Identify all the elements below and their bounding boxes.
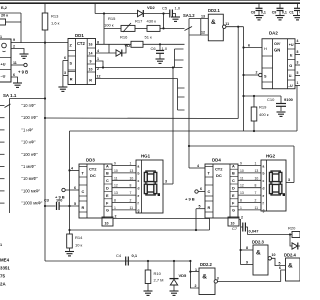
svg-text:7: 7 [255,191,257,195]
wire DD1 pin3 [63,75,68,77]
wire DD1 pin4 to VD1 [96,52,117,54]
svg-text:9: 9 [246,261,248,265]
svg-text:C4: C4 [116,253,122,258]
junction DD4 R branch [195,229,197,231]
junction x243.5/y96 [242,95,244,97]
wire DA1 pin2 to ground [11,49,24,55]
HG1 decimal point [158,193,160,196]
svg-text:D: D [232,187,235,191]
ground at C10 [277,112,286,116]
wire +9V supply rail [0,2,300,4]
svg-text:"1 нФ": "1 нФ" [22,127,34,132]
wire DD1 pin1 to pin2 net [96,61,104,68]
svg-text:+U: +U [289,43,294,47]
border frame top edge [0,0,300,2]
svg-text:C: C [232,179,235,183]
wire corner x209.5 [209,219,211,231]
wire R15-R17 [135,27,147,29]
wire bus y131 [70,130,298,132]
svg-text:–U: –U [1,75,6,79]
junction R19 bottom [253,130,255,132]
svg-text:C10: C10 [267,97,275,102]
svg-text:C8: C8 [251,10,256,14]
junction DD2.2 input branch [189,260,191,262]
capacitor C9 0,1 [277,8,284,10]
wire tie DD2.1 pins 13-12 [200,19,202,36]
wire DD1 pin8 to R16 [96,43,132,45]
wire SA1.1 common to x45 [10,98,46,100]
svg-text:7: 7 [130,191,132,195]
wire C10 bottom [280,106,282,111]
display HG1 box [136,160,163,213]
svg-text:9: 9 [240,162,242,166]
wire DD4 R input [196,208,205,210]
svg-text:9: 9 [90,59,92,63]
wire DD4 T input [189,167,205,169]
wire DD1 pins 6,3 to ground [62,61,64,88]
svg-text:R15: R15 [108,16,116,21]
wire from 20k resistor [6,21,22,23]
capacitor C7 [243,223,246,232]
svg-text:2: 2 [13,45,15,49]
svg-text:13: 13 [240,191,244,195]
wire DA2 pin 5 [295,75,300,77]
diode VD2 [138,10,144,17]
svg-text:C9: C9 [272,10,277,14]
junction R17 node [162,27,164,29]
svg-text:C6: C6 [151,46,157,51]
wire DD2.3 pin8 [241,249,253,251]
svg-text:4: 4 [71,166,73,170]
svg-text:DC: DC [216,173,222,178]
diode VD1 [116,50,122,57]
ground at VD5 [170,291,179,295]
wire DA2 pin 8 [295,54,300,56]
svg-text:4: 4 [197,164,199,168]
ground at R10 [144,291,153,295]
svg-text:&: & [288,263,293,270]
wire DD4 C input [198,191,205,193]
wire x69 bus-to-R14 [69,131,71,234]
svg-text:8: 8 [255,184,257,188]
svg-text:"10 нФ": "10 нФ" [22,140,37,145]
ground at R14 [65,252,74,256]
svg-text:5: 5 [279,262,281,266]
svg-text:1,0: 1,0 [175,6,181,11]
wire DD2.3 out to DD2.4 pin5 [272,258,286,265]
capacitor C1 0,1 [294,8,301,10]
svg-text:R: R [70,78,73,82]
wire C3 to DD3 R input [59,205,79,207]
wire cap C9 to ground [279,11,281,16]
wire x173 from DD1 pin2 net to HG1 pin3 [172,68,174,185]
wire DA2 pin 4 [295,43,300,45]
resistor R14 [67,234,73,248]
svg-text:DD1: DD1 [75,33,84,38]
svg-text:1: 1 [97,57,99,61]
DD3 carry cell [102,217,113,226]
switch SA1.1 contact 2 [0,117,5,119]
junction C6 tap [159,43,161,45]
svg-text:"10 пФ": "10 пФ" [22,103,36,108]
wire rail to cap C9 [279,3,281,8]
DD1 output cells 16/14/9/10/R [87,47,95,49]
svg-text:g: g [263,209,265,213]
inverting bubble DD2.1 [223,25,226,28]
wire C5 node vertical [163,14,165,29]
ground at C9 [276,16,285,20]
svg-text:R19: R19 [259,105,267,110]
ground at C6 [156,59,165,63]
op-amp DA1 (generator IC, cut off at left edge) [0,39,11,82]
switch SA1.1 contact 1 [0,105,5,107]
switch SA1.1 contact 8 [0,190,5,192]
wire to DD2.2 pin2 [190,261,199,288]
svg-text:"100 мкФ": "100 мкФ" [22,188,41,193]
terminal +9V circle DD4 [195,190,198,193]
wire measurement bus y261 [45,260,190,262]
HG1 seven-segment digit [144,171,157,195]
wire R14 to ground [69,248,71,252]
switch SA1.1 contact 9 [0,202,5,204]
IC DD1 box [68,39,96,85]
svg-text:11: 11 [130,206,134,210]
wire rail drop x95 [94,3,96,13]
svg-text:6: 6 [248,44,250,48]
svg-text:+U: +U [1,63,6,67]
svg-text:10: 10 [240,169,244,173]
svg-text:d: d [138,187,140,191]
wire rail to cap C1 [297,3,299,8]
svg-text:1: 1 [0,35,2,39]
wire main vertical bus x45 [44,3,46,261]
resistor R16 [131,41,143,47]
wire DD2.1 output y26.7 [226,26,244,28]
svg-text:"100 нФ": "100 нФ" [22,152,39,157]
svg-text:R: R [82,206,85,210]
switch SA1.1 moving contact [5,104,11,108]
wire DA1 pin11 to +9V terminal [11,64,24,66]
resistor R10 [145,270,151,284]
svg-text:R13: R13 [51,14,59,19]
junction DD3 T [68,169,70,171]
wire DD2.2 pin1 [190,271,199,273]
svg-text:DD2.2: DD2.2 [200,262,213,267]
wire C7 to R20 line [245,227,247,235]
wire SA1.1 wafer line [9,99,11,214]
wire VD5 top [173,261,175,278]
svg-text:VD5: VD5 [179,273,188,278]
svg-text:100 к: 100 к [104,22,114,27]
wire vertical x238 to reset line [237,27,239,119]
wire tie pin8-pin4 [108,44,110,53]
svg-text:13: 13 [255,169,259,173]
svg-text:9: 9 [13,38,15,42]
svg-text:0,1: 0,1 [282,10,287,14]
gate DD2.4 box [286,258,301,281]
wires DD3-HG1 segment rows [112,165,136,167]
junction R14 top [68,229,70,231]
svg-text:C1: C1 [289,10,294,14]
svg-text:1,6 к: 1,6 к [51,21,60,26]
svg-text:11: 11 [240,176,244,180]
DA2 right cell dividers [288,48,296,50]
svg-text:2,7 М: 2,7 М [154,278,164,283]
svg-text:Б,2: Б,2 [1,6,7,10]
junction C3/R14 vertical [68,205,70,207]
wire C10 top [280,96,282,104]
svg-text:a: a [138,164,140,168]
svg-text:R17: R17 [135,19,143,24]
inverting bubble DD2.3 [268,257,271,260]
wire DD4 carry down to DD2.3 inputs [239,220,241,265]
svg-text:C: C [82,190,85,194]
junction R19 top [253,95,255,97]
switch SA1.1 contact 3 [0,129,5,131]
svg-text:СТ2: СТ2 [89,167,97,172]
svg-text:5: 5 [297,71,299,75]
svg-text:B: B [232,172,235,176]
svg-text:0,1: 0,1 [261,10,266,14]
capacitor C4 [126,257,129,266]
svg-text:430 к: 430 к [147,19,157,24]
wire y230 carry bus [70,229,210,231]
svg-text:4: 4 [297,39,299,43]
svg-text:8: 8 [297,50,299,54]
svg-text:Ω: Ω [289,64,292,68]
wire C6 stem [159,44,161,50]
svg-text:10: 10 [105,222,109,226]
wire R19 bottom [253,121,255,131]
wire DD2.2 out to DD2.4 pin6 [218,270,286,281]
svg-text:2: 2 [130,199,132,203]
wire DD2.1 pin12 [190,34,209,36]
svg-text:3: 3 [64,71,66,75]
junction x189/y146 [188,145,190,147]
wire top stub y13 [0,12,21,14]
wire DD1 pin2 long to right [96,67,183,69]
wire DA2 pin 3 [295,64,300,66]
svg-text:B: B [106,172,109,176]
svg-text:51 к: 51 к [145,35,153,40]
wire reset bus y118 [45,117,238,120]
gate DD2.3 box [253,245,268,275]
svg-text:10: 10 [114,169,118,173]
wire y13.5 left part [95,13,137,15]
junction R10 [147,260,149,262]
svg-text:3: 3 [165,180,167,184]
svg-text:C3: C3 [44,199,49,203]
wire x294 down to HG2 pin3 [293,146,295,183]
wire cap C1 to ground [297,11,299,16]
switch SA1.2 contacts from DD1 pin2 net [175,49,184,68]
svg-text:DD2.4: DD2.4 [284,253,297,258]
svg-text:10 к: 10 к [75,243,83,248]
wire vertical x21 [20,13,22,43]
junction DA2 pin2 [242,74,244,76]
wire HG1 pin3 [163,183,173,185]
ground at DA1 pin2 [20,54,29,58]
wire R19 top [253,96,255,107]
switch SA1.1 contact 4 [0,141,5,143]
DD1 left pin cells [68,38,76,40]
svg-text:2: 2 [241,216,243,220]
svg-text:&: & [211,19,216,26]
svg-text:DD2.1: DD2.1 [208,8,221,13]
wire DA2 pin 1 [295,85,300,87]
diode VD5 (to ground, cathode bar up) [170,278,179,280]
svg-text:R16: R16 [120,35,128,40]
gate DD2.2 box [199,268,215,295]
svg-text:C5: C5 [162,6,168,11]
svg-text:6: 6 [64,56,66,60]
wire HG2 pin3 [286,182,294,184]
junction DD2.3 pins [240,249,242,251]
svg-text:3: 3 [217,277,219,281]
svg-text:10: 10 [231,222,235,226]
svg-text:H: H [264,46,267,51]
svg-text:СТ2: СТ2 [77,41,85,46]
svg-text:3351: 3351 [0,266,10,271]
svg-text:e: e [263,194,265,198]
svg-text:HG2: HG2 [266,154,276,159]
resistor R19 [251,107,257,121]
wire R10 to ground [147,284,149,292]
diode VD9 (cut) [292,243,298,250]
junction reset wire [44,117,46,119]
display HG2 box [261,160,286,211]
svg-text:"1 мкФ": "1 мкФ" [22,164,37,169]
svg-text:СТ2: СТ2 [215,167,223,172]
svg-text:R: R [89,78,92,82]
svg-text:8: 8 [130,184,132,188]
svg-text:R10: R10 [154,271,162,276]
svg-text:ОУ/: ОУ/ [274,42,281,46]
IC DD3 box [79,164,112,218]
trimmer arrow on R15 [123,23,131,32]
wire DD3 carry right [113,218,210,220]
svg-text:c: c [138,179,140,183]
svg-text:2: 2 [255,199,257,203]
DD4 carry cell [228,217,239,226]
svg-text:DD3: DD3 [86,158,95,163]
svg-text:12: 12 [97,75,101,79]
svg-text:8: 8 [114,199,116,203]
svg-text:14: 14 [89,51,93,55]
junction VD5 [173,260,175,262]
wire y234.5 to R20 [248,234,293,236]
svg-text:2А: 2А [0,282,6,287]
svg-text:"1000 мкФ": "1000 мкФ" [22,201,43,206]
svg-text:a: a [263,164,265,168]
junction x104 [103,12,105,14]
wire wafer to DD2.1 pin13 [189,18,208,20]
svg-text:16: 16 [89,42,93,46]
svg-text:100: 100 [56,199,62,203]
wire to output diode [290,235,292,247]
svg-text:0,047: 0,047 [249,229,260,234]
ground at C5 [171,17,180,21]
svg-text:A: A [106,164,109,168]
switch SA1.2 contacts from DD1 pin12 net [178,79,185,111]
wire DD1 pin6 [63,60,68,62]
junction DD2.1 out [237,26,239,28]
wire C6 to ground [159,53,161,59]
wire vertical x243.5 (DA2 input net) [243,27,245,131]
svg-text:d: d [263,187,265,191]
wire DD3 C input [65,189,79,191]
svg-text:C7: C7 [232,226,238,231]
wire C5 to ground [172,14,175,18]
wire R10 top [147,261,149,270]
svg-text:1: 1 [114,206,116,210]
svg-text:VD2: VD2 [147,5,156,10]
svg-text:13: 13 [114,191,118,195]
svg-text:3: 3 [297,61,299,65]
switch SA1.2 moving contact dash [185,27,193,31]
svg-text:10: 10 [255,176,259,180]
svg-text:75: 75 [0,274,5,279]
svg-text:R14: R14 [75,235,83,240]
svg-text:2: 2 [256,71,258,75]
switch SA1.1 contact 5 [0,153,5,155]
junction R13/pin9 [44,42,46,44]
svg-text:13: 13 [201,14,205,18]
junction SA1.1 common [44,97,46,99]
svg-text:DA2: DA2 [269,31,278,36]
switch SA1.1 contact 7 [0,178,5,180]
resistor R13 [42,13,48,30]
svg-text:11: 11 [13,61,17,65]
svg-text:C: C [106,179,109,183]
ground at C8 [255,16,264,20]
svg-text:1: 1 [297,81,299,85]
wire DA1 pin6 to ground [11,77,18,83]
svg-text:A: A [232,164,235,168]
svg-text:5: 5 [199,205,201,209]
DA2 left cell dividers [262,55,273,57]
svg-text:11: 11 [255,206,259,210]
svg-text:6: 6 [13,73,15,77]
ground at C1 [293,16,302,20]
svg-text:2: 2 [195,284,197,288]
capacitor C8 0,1 [256,8,263,10]
svg-text:G: G [106,209,109,213]
svg-text:+ 9 В: + 9 В [18,70,28,75]
svg-text:11: 11 [114,176,118,180]
svg-text:"100 пФ": "100 пФ" [22,115,39,120]
wire x297 up to DA2 [296,86,298,132]
svg-text:9: 9 [114,162,116,166]
wire VD5 to ground [173,285,175,291]
capacitor C10 [276,104,286,107]
terminal +9V circle DD3 [62,188,65,191]
wire diode to edge [298,245,300,247]
wire R16 to SA1.2 contact [143,43,185,45]
junction DA2 pin6 [242,46,244,48]
wire VD1 to R16 wire [122,44,126,53]
svg-text:g: g [138,209,140,213]
IC DD4 box [205,164,238,218]
svg-text:1: 1 [130,162,132,166]
svg-text:1: 1 [195,268,197,272]
resistor 20 к (cut at edge) [0,19,6,25]
svg-text:6: 6 [74,186,76,190]
svg-text:12: 12 [240,184,244,188]
wire rail to cap C8 [258,3,260,8]
gate DD2.1 box [208,14,223,41]
IC DA2 box [262,39,295,89]
